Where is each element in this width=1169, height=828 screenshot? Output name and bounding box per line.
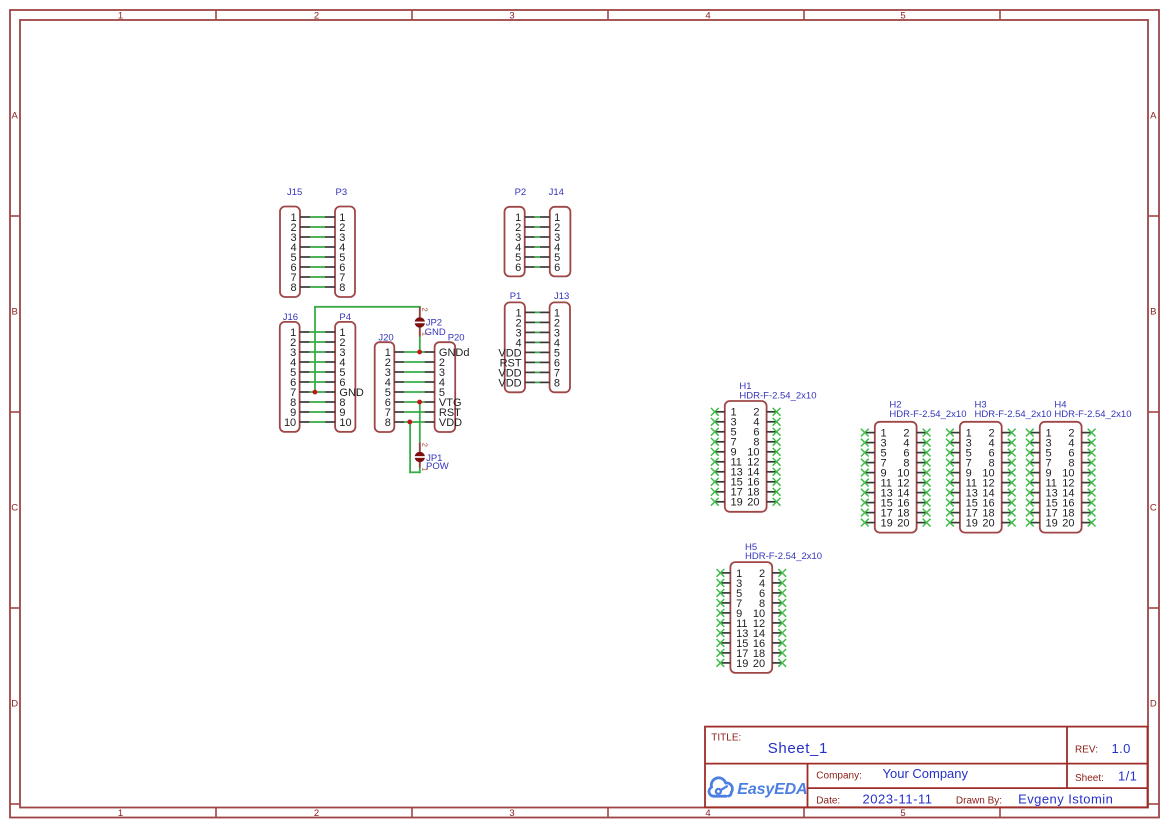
svg-text:2: 2 — [314, 808, 319, 819]
svg-text:8: 8 — [554, 377, 560, 389]
svg-text:HDR-F-2.54_2x10: HDR-F-2.54_2x10 — [745, 551, 822, 562]
svg-text:3: 3 — [509, 10, 514, 21]
svg-text:6: 6 — [515, 262, 521, 274]
svg-text:1: 1 — [118, 808, 123, 819]
svg-text:4: 4 — [705, 10, 710, 21]
svg-text:EasyEDA: EasyEDA — [737, 781, 807, 798]
svg-text:1: 1 — [420, 467, 429, 471]
svg-text:10: 10 — [284, 417, 296, 429]
svg-text:C: C — [1150, 503, 1157, 514]
svg-text:6: 6 — [554, 262, 560, 274]
svg-text:4: 4 — [705, 808, 710, 819]
svg-text:5: 5 — [900, 10, 905, 21]
svg-text:Sheet:: Sheet: — [1075, 773, 1104, 784]
svg-text:P20: P20 — [448, 332, 465, 343]
svg-text:C: C — [11, 503, 18, 514]
svg-text:19: 19 — [966, 518, 978, 530]
svg-text:P2: P2 — [515, 187, 527, 198]
svg-text:VDD: VDD — [439, 417, 462, 429]
svg-text:10: 10 — [339, 417, 351, 429]
svg-text:HDR-F-2.54_2x10: HDR-F-2.54_2x10 — [889, 409, 966, 420]
svg-text:A: A — [12, 111, 19, 122]
svg-text:J20: J20 — [378, 332, 393, 343]
svg-text:Date:: Date: — [816, 795, 840, 806]
svg-text:3: 3 — [509, 808, 514, 819]
svg-text:20: 20 — [1062, 518, 1074, 530]
svg-text:J15: J15 — [287, 187, 302, 198]
svg-text:2: 2 — [314, 10, 319, 21]
svg-text:8: 8 — [385, 417, 391, 429]
svg-text:B: B — [1150, 307, 1156, 318]
svg-text:2023-11-11: 2023-11-11 — [863, 791, 933, 806]
svg-text:2: 2 — [420, 443, 429, 447]
svg-text:1: 1 — [118, 10, 123, 21]
svg-text:J16: J16 — [283, 312, 298, 323]
svg-text:1/1: 1/1 — [1118, 769, 1137, 784]
svg-text:HDR-F-2.54_2x10: HDR-F-2.54_2x10 — [739, 391, 816, 402]
svg-text:HDR-F-2.54_2x10: HDR-F-2.54_2x10 — [975, 409, 1052, 420]
svg-text:J13: J13 — [554, 291, 569, 302]
svg-text:J14: J14 — [549, 187, 564, 198]
svg-text:TITLE:: TITLE: — [711, 733, 741, 744]
svg-text:D: D — [11, 699, 18, 710]
svg-text:5: 5 — [900, 808, 905, 819]
svg-text:Evgeny Istomin: Evgeny Istomin — [1018, 791, 1113, 806]
svg-text:HDR-F-2.54_2x10: HDR-F-2.54_2x10 — [1054, 409, 1131, 420]
svg-text:19: 19 — [731, 497, 743, 509]
svg-text:1.0: 1.0 — [1112, 741, 1131, 756]
svg-text:20: 20 — [982, 518, 994, 530]
svg-text:P3: P3 — [336, 187, 348, 198]
svg-text:D: D — [1150, 699, 1157, 710]
svg-text:Drawn By:: Drawn By: — [956, 795, 1002, 806]
svg-text:19: 19 — [881, 518, 893, 530]
svg-text:Sheet_1: Sheet_1 — [768, 740, 828, 757]
svg-text:19: 19 — [736, 658, 748, 670]
svg-text:19: 19 — [1046, 518, 1058, 530]
svg-text:P1: P1 — [510, 291, 522, 302]
svg-text:Your Company: Your Company — [883, 766, 969, 781]
svg-text:8: 8 — [290, 282, 296, 294]
svg-text:P4: P4 — [339, 312, 351, 323]
svg-text:20: 20 — [753, 658, 765, 670]
svg-text:1: 1 — [420, 332, 429, 336]
svg-text:8: 8 — [339, 282, 345, 294]
svg-text:Company:: Company: — [816, 771, 862, 782]
svg-text:20: 20 — [747, 497, 759, 509]
svg-text:A: A — [1150, 111, 1157, 122]
svg-text:20: 20 — [897, 518, 909, 530]
svg-text:VDD: VDD — [498, 377, 521, 389]
svg-text:B: B — [12, 307, 18, 318]
svg-text:2: 2 — [420, 308, 429, 312]
svg-text:REV:: REV: — [1075, 744, 1098, 755]
